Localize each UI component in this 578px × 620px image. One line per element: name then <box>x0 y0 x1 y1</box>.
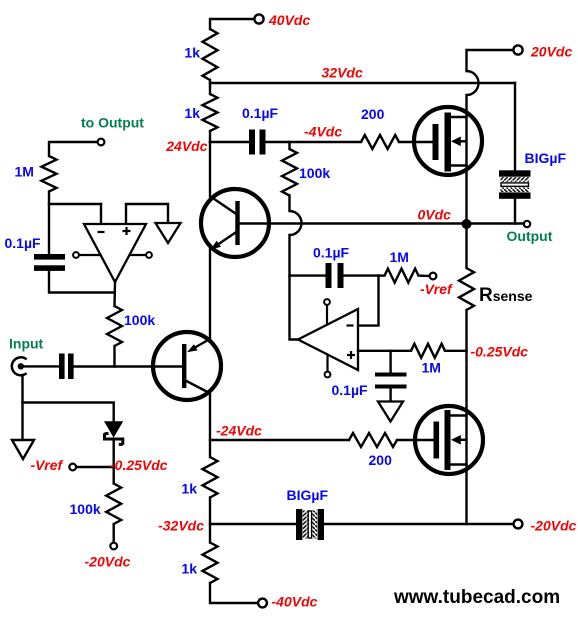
svg-text:20Vdc: 20Vdc <box>530 44 572 60</box>
resistor 1k (fourth) <box>203 543 218 584</box>
svg-text:1k: 1k <box>184 45 200 61</box>
resistor Rsense <box>459 268 474 310</box>
resistor 1k (third) <box>203 457 218 498</box>
svg-text:-Vref: -Vref <box>31 457 64 473</box>
svg-text:-20Vdc: -20Vdc <box>531 518 577 534</box>
svg-text:Input: Input <box>9 336 44 352</box>
svg-text:100k: 100k <box>124 312 155 328</box>
resistor 100k (upper) <box>282 142 297 196</box>
wire Q2 collector down to -24Vdc node <box>209 394 211 458</box>
terminal 40Vdc <box>210 14 264 29</box>
label BIGuF <box>287 487 329 503</box>
transistor Q1 <box>201 189 269 257</box>
resistor R 1k (top) <box>203 29 218 80</box>
label 100k <box>124 312 155 328</box>
op-amp U2 (central, points left) <box>298 309 358 370</box>
op-amp U1 (points down) <box>84 224 146 282</box>
svg-text:www.tubecad.com: www.tubecad.com <box>393 587 560 608</box>
pin offset right U1 <box>130 252 152 258</box>
label 1k <box>181 561 197 577</box>
wire -4Vdc net <box>266 141 362 143</box>
svg-text:0Vdc: 0Vdc <box>418 207 452 223</box>
label 100k <box>70 501 101 517</box>
label -24Vdc <box>216 423 262 439</box>
svg-text:-40Vdc: -40Vdc <box>272 594 318 610</box>
resistor 100k (left middle) <box>107 306 122 346</box>
wire cap to 1M junction <box>344 274 379 276</box>
svg-text:32Vdc: 32Vdc <box>322 65 363 81</box>
capacitor 0.1uF (top) <box>249 130 266 155</box>
label 1k <box>184 105 200 121</box>
resistor 1M (left) <box>42 156 57 192</box>
label Output <box>507 228 553 244</box>
svg-text:1M: 1M <box>15 164 34 180</box>
terminal to Output <box>49 139 104 156</box>
terminal -20Vdc (right) <box>514 520 523 529</box>
input jack <box>12 357 27 375</box>
capacitor BIGuF (right) <box>499 170 531 198</box>
wire BIGuF to -20Vdc terminal <box>324 523 514 525</box>
wire BIGuF to output line <box>514 199 516 224</box>
label -Vref <box>31 457 64 473</box>
wire -24Vdc net <box>210 439 349 441</box>
svg-text:BIGµF: BIGµF <box>525 150 567 166</box>
wire inverting input stub <box>100 204 102 224</box>
resistor 100k (bottom left) <box>106 484 121 525</box>
wire M2 source down <box>465 465 467 525</box>
label 200 <box>361 106 385 122</box>
wire U1 output down <box>113 282 116 306</box>
pin offset left U1 <box>73 252 100 258</box>
svg-text:-32Vdc: -32Vdc <box>158 518 204 534</box>
wire cap to Q2 base <box>74 365 182 367</box>
svg-text:100k: 100k <box>299 165 330 181</box>
label 0Vdc <box>418 207 452 223</box>
label 20Vdc <box>530 44 572 60</box>
label BIGuF <box>525 150 567 166</box>
label 100k <box>299 165 330 181</box>
wire collector lead Q1 <box>209 142 211 197</box>
label -40Vdc <box>272 594 318 610</box>
label 40Vdc <box>268 12 310 28</box>
label 0.1uF <box>5 235 42 251</box>
capacitor BIGuF (bottom) <box>296 509 324 540</box>
svg-text:Output: Output <box>507 228 553 244</box>
label -0.25Vdc <box>110 457 168 473</box>
svg-text:0.1µF: 0.1µF <box>332 382 369 398</box>
terminal -20Vdc (bottom left) <box>110 524 117 549</box>
wire emitter rail between Q1 and Q2 <box>209 250 211 339</box>
MOSFET M1 (top) <box>414 107 482 175</box>
terminal -Vref (mid) <box>419 273 437 280</box>
wire shield to zener <box>23 403 114 422</box>
resistor 200 (top) <box>361 135 399 149</box>
label 1M <box>422 360 441 376</box>
label www.tubecad.com <box>393 587 560 608</box>
label -4Vdc <box>304 124 342 140</box>
svg-text:-24Vdc: -24Vdc <box>216 423 262 439</box>
svg-text:40Vdc: 40Vdc <box>268 12 310 28</box>
wire inverting input branch <box>358 276 379 326</box>
wire 0Vdc net (Q1 base to output) <box>240 222 524 224</box>
ground float symbol (left) <box>156 223 181 243</box>
svg-text:0.1µF: 0.1µF <box>242 105 279 121</box>
svg-text:-Vref: -Vref <box>420 281 453 297</box>
wire rail between 1k resistors <box>209 80 211 94</box>
wire 1M to cap and inverting input <box>49 192 101 255</box>
label -0.25Vdc <box>471 344 529 360</box>
wire non-inverting input net <box>358 350 411 352</box>
wire drain lead hop over 32Vdc <box>467 71 479 117</box>
label 32Vdc <box>322 65 363 81</box>
resistor R 1k (second) <box>203 94 218 131</box>
label 1k <box>184 45 200 61</box>
resistor 1M (to Rsense bottom) <box>411 344 445 358</box>
wire rail to -32Vdc node <box>209 498 211 543</box>
wire gate lead of M2 <box>397 439 434 441</box>
svg-text:1k: 1k <box>181 561 197 577</box>
svg-text:200: 200 <box>369 452 393 468</box>
label -20Vdc <box>531 518 577 534</box>
svg-text:-0.25Vdc: -0.25Vdc <box>110 457 168 473</box>
terminal -40Vdc <box>258 599 267 608</box>
wire 32Vdc net <box>210 82 515 84</box>
terminal Output <box>524 221 530 227</box>
wire 1M to rail <box>445 350 467 352</box>
svg-text:200: 200 <box>361 106 385 122</box>
transistor Q2 <box>151 332 221 400</box>
wire rail to 24Vdc node <box>209 131 211 142</box>
label 0.1uF <box>242 105 279 121</box>
pin offset bottom U2 <box>325 355 331 377</box>
terminal -Vref (bottom left) <box>69 464 113 471</box>
label 1M <box>390 249 409 265</box>
wire jack to input cap <box>21 365 59 367</box>
svg-text:-4Vdc: -4Vdc <box>304 124 342 140</box>
MOSFET M2 (bottom) <box>415 406 483 474</box>
svg-text:100k: 100k <box>70 501 101 517</box>
junction node 0Vdc <box>462 219 472 229</box>
wire 100k to Q2 base net <box>113 346 115 367</box>
svg-text:0.1µF: 0.1µF <box>313 245 350 261</box>
svg-text:BIGµF: BIGµF <box>287 487 329 503</box>
capacitor input coupling <box>59 354 74 380</box>
svg-text:0.1µF: 0.1µF <box>5 235 42 251</box>
svg-text:-0.25Vdc: -0.25Vdc <box>471 344 529 360</box>
svg-text:Rsense: Rsense <box>479 285 533 306</box>
svg-text:24Vdc: 24Vdc <box>165 138 207 154</box>
resistor 200 (bottom) <box>349 433 397 447</box>
svg-text:-20Vdc: -20Vdc <box>85 554 131 570</box>
wire M1 source to 0Vdc node, Rsense top <box>465 166 467 269</box>
label 200 <box>369 452 393 468</box>
wire rail to -40Vdc terminal <box>210 583 258 603</box>
terminal 20Vdc <box>467 45 523 71</box>
wire gate lead of M1 <box>399 141 433 143</box>
wire 32Vdc down to BIGuF <box>514 83 516 171</box>
svg-text:1k: 1k <box>181 481 197 497</box>
zener diode D1 <box>104 421 123 445</box>
wire jack shield down <box>21 375 23 440</box>
pin offset top U2 <box>324 299 330 325</box>
svg-text:to Output: to Output <box>81 115 144 131</box>
capacitor 0.1uF (left) <box>34 254 65 271</box>
ground symbol (input) <box>12 440 34 459</box>
resistor 1M (to -Vref) <box>379 269 419 283</box>
capacitor 0.1uF (central) <box>326 263 344 288</box>
capacitor 0.1uF (below + input) <box>375 351 407 402</box>
wire 100k down with hop over 0Vdc <box>290 196 302 340</box>
svg-text:1M: 1M <box>422 360 441 376</box>
wire non-inverting input stub to float <box>126 204 168 224</box>
wire cap bottom to op-amp output <box>49 271 115 293</box>
label 0.1uF <box>332 382 369 398</box>
label 24Vdc <box>165 138 207 154</box>
label 1M <box>15 164 34 180</box>
wire 0.1uF left lead <box>290 274 326 276</box>
label 1k <box>181 481 197 497</box>
wire 24Vdc node to C1 <box>210 141 249 143</box>
ground float symbol (central) <box>378 402 403 422</box>
svg-text:1M: 1M <box>390 249 409 265</box>
wire Rsense to M2 drain <box>465 310 467 416</box>
label to Output <box>81 115 144 131</box>
label -Vref <box>420 281 453 297</box>
wire zener cathode to -0.25Vdc node <box>112 439 114 484</box>
label Input <box>9 336 44 352</box>
label -32Vdc <box>158 518 204 534</box>
label 0.1uF <box>313 245 350 261</box>
label Rsense <box>479 285 533 306</box>
wire -32Vdc net to BIGuF <box>210 523 296 525</box>
svg-text:1k: 1k <box>184 105 200 121</box>
label -20Vdc <box>85 554 131 570</box>
